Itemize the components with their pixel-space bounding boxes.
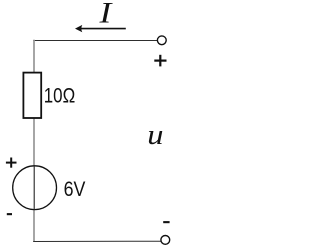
wire left vertical upper	[33, 40, 35, 73]
label I	[98, 0, 113, 30]
wire bottom horizontal	[33, 240, 161, 242]
wire top horizontal	[33, 40, 157, 42]
terminal bottom-right	[161, 236, 170, 245]
wire left vertical lower	[33, 210, 35, 242]
polarity + at source	[6, 158, 17, 168]
polarity + at top-right terminal	[154, 55, 166, 67]
resistor 10Ω	[23, 73, 41, 118]
terminal top-right	[157, 36, 166, 45]
svg-text:6V: 6V	[64, 178, 86, 201]
voltage source 6V	[13, 166, 57, 210]
svg-text:u: u	[147, 119, 163, 151]
svg-text:I: I	[98, 0, 113, 30]
polarity - at source	[7, 213, 12, 215]
wire left vertical middle	[33, 118, 35, 166]
polarity - at bottom-right terminal	[163, 221, 169, 223]
label u	[147, 119, 163, 151]
svg-text:10Ω: 10Ω	[44, 85, 75, 108]
current arrow I	[75, 25, 126, 32]
